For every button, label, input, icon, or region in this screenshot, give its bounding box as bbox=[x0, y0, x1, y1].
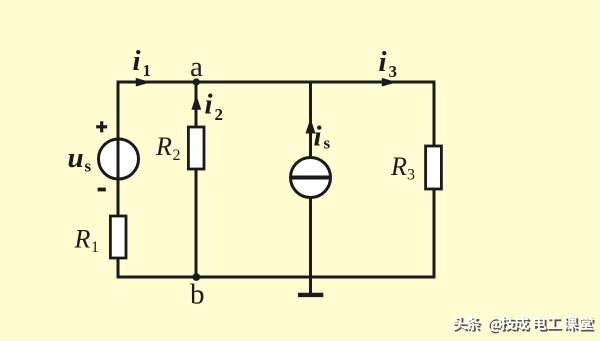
resistor R1 body bbox=[110, 216, 126, 258]
svg-text:a: a bbox=[190, 51, 203, 83]
current source i_s circle bbox=[291, 158, 331, 198]
svg-text:1: 1 bbox=[91, 239, 99, 256]
watermark shadow 头条@技成电工课堂 bbox=[454, 318, 594, 334]
svg-text:2: 2 bbox=[215, 105, 224, 124]
arrow i1 on top wire bbox=[136, 78, 151, 87]
arrow i_s on current source branch bbox=[306, 118, 316, 133]
svg-text:b: b bbox=[190, 279, 205, 311]
svg-text:s: s bbox=[324, 134, 331, 153]
svg-text:s: s bbox=[85, 157, 92, 176]
ground bar bbox=[298, 293, 323, 297]
svg-text:i: i bbox=[379, 46, 387, 78]
voltage source minus sign bbox=[98, 188, 106, 192]
ground stub wire bbox=[309, 277, 312, 295]
node b dot bbox=[192, 273, 200, 281]
arrow i3 on top wire bbox=[382, 78, 397, 87]
wire middle branch a-b bbox=[195, 82, 198, 277]
wire current source branch bbox=[309, 82, 312, 277]
svg-text:1: 1 bbox=[143, 61, 152, 80]
node a dot bbox=[193, 78, 200, 85]
wire bottom bbox=[117, 276, 436, 279]
resistor R2 body bbox=[188, 127, 204, 169]
svg-text:i: i bbox=[133, 45, 141, 77]
svg-text:i: i bbox=[205, 89, 213, 121]
arrow i2 on middle branch bbox=[191, 95, 201, 110]
watermark text 头条@技成电工课堂 bbox=[453, 316, 593, 332]
svg-text:i: i bbox=[314, 121, 322, 153]
svg-text:3: 3 bbox=[389, 62, 398, 81]
resistor R3 body bbox=[426, 146, 442, 189]
voltage source U_s circle bbox=[99, 139, 139, 179]
svg-text:3: 3 bbox=[407, 167, 415, 184]
voltage source plus sign bbox=[96, 121, 107, 132]
svg-text:u: u bbox=[68, 142, 84, 174]
svg-text:2: 2 bbox=[173, 147, 181, 164]
svg-text:R: R bbox=[390, 152, 407, 181]
wire top bbox=[117, 81, 436, 84]
current source horizontal bar bbox=[292, 176, 330, 180]
wire left branch (through voltage source) bbox=[117, 82, 120, 277]
svg-text:R: R bbox=[155, 132, 172, 161]
svg-text:R: R bbox=[74, 225, 91, 254]
wire right branch bbox=[433, 82, 436, 277]
